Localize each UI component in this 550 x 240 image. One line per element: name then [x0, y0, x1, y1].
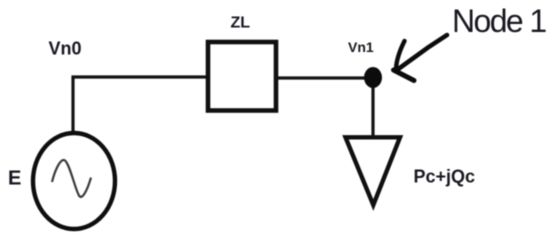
annotation arrow: shaft from Node 1 text to node dot: [399, 35, 447, 69]
svg-text:ZL: ZL: [231, 15, 251, 32]
svg-text:E: E: [8, 168, 21, 190]
svg-text:Vn1: Vn1: [348, 39, 374, 55]
svg-text:Vn0: Vn0: [49, 39, 82, 59]
annotation arrow: lower barb: [394, 70, 415, 81]
wire: ZL box to node Vn1: [276, 76, 372, 79]
svg-text:Node 1: Node 1: [452, 3, 546, 39]
wire: source top to corner at Vn0: [71, 76, 74, 137]
load triangle Pc+jQc: [346, 137, 401, 205]
impedance ZL box: [208, 42, 276, 111]
AC source E: circle: [33, 133, 115, 229]
node Vn1 junction dot: [364, 67, 382, 88]
annotation arrow: upper barb: [396, 41, 405, 69]
svg-text:Pc+jQc: Pc+jQc: [414, 167, 476, 187]
wire: node Vn1 down to load triangle: [371, 79, 374, 137]
wire: horizontal from Vn0 corner to ZL box: [72, 75, 211, 78]
AC source E: sine waveform: [52, 160, 91, 197]
